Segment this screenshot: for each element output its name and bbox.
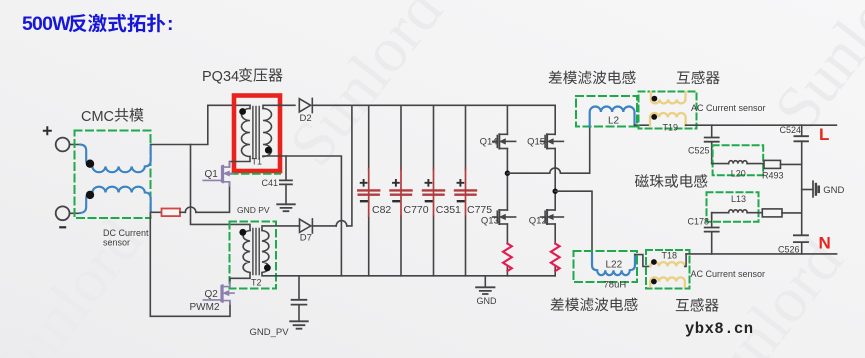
CMC common-mode choke dashed box	[75, 131, 151, 219]
resistor below Q13	[503, 244, 512, 272]
svg-text:Q15: Q15	[527, 137, 545, 148]
T19 primary winding dot	[651, 114, 657, 120]
wire upper output with hop	[507, 126, 589, 173]
svg-text:AC Current sensor: AC Current sensor	[691, 103, 766, 113]
svg-text:C82: C82	[372, 204, 391, 216]
svg-text:L2: L2	[608, 116, 620, 127]
L22 dashed box	[574, 251, 638, 282]
resistor current sense	[162, 209, 181, 217]
resistor R493	[764, 160, 781, 168]
wire N rail	[686, 253, 837, 255]
svg-text:C351: C351	[436, 204, 461, 216]
capacitor C526	[801, 235, 803, 254]
terminal + input	[56, 138, 70, 152]
svg-text:T19: T19	[663, 123, 679, 133]
resistor below Q12	[551, 244, 560, 272]
transformer T2 primary dot	[239, 229, 246, 236]
transistor Q14 (mosfet)	[493, 134, 516, 148]
L13 dashed box	[707, 192, 759, 222]
svg-text:C770: C770	[404, 204, 429, 216]
wire D7 cathode to hop	[312, 225, 336, 227]
svg-text:CMC: CMC	[81, 109, 114, 125]
transformer T1 dashed box bottom edge	[231, 173, 280, 175]
ground GND secondary	[484, 276, 486, 287]
wire bridge right leg	[554, 105, 556, 275]
wire T18 to N rail	[685, 254, 686, 267]
wire bridge left leg	[506, 105, 508, 275]
current transformer T18 primary winding	[650, 262, 685, 266]
current transformer T19 primary winding	[650, 113, 686, 125]
capacitor on secondary gnd rail	[298, 276, 300, 321]
CMC choke winding lower	[80, 187, 151, 213]
T19 sense winding dot	[652, 96, 658, 102]
T19 dashed box	[639, 92, 697, 129]
current transformer T19 sense winding	[651, 92, 686, 104]
wire T1 secondary bottom return	[263, 156, 341, 276]
svg-text::: :	[167, 13, 174, 35]
svg-text:T1: T1	[252, 157, 263, 167]
CMC lower winding polarity dot	[86, 191, 94, 199]
transistor Q15 (mosfet)	[541, 134, 564, 148]
node bridge left midpoint	[505, 171, 510, 176]
transformer T1 core	[253, 107, 259, 159]
diode D2	[299, 99, 310, 112]
svg-text:C525: C525	[688, 146, 710, 156]
transformer T2 dashed box	[230, 222, 277, 289]
wire T1 primary bottom to Q1 drain	[230, 157, 251, 168]
svg-text:Q12: Q12	[529, 216, 547, 227]
L2 dashed box	[576, 96, 637, 127]
svg-text:PQ34: PQ34	[202, 69, 239, 85]
wire T2 secondary bottom to gnd rail	[262, 273, 555, 276]
wire sense node to resistor	[151, 211, 162, 213]
ground GND chassis right	[802, 189, 813, 191]
wire T19 to L terminal	[686, 124, 837, 126]
svg-text:DC Current: DC Current	[103, 228, 149, 238]
diode D7	[300, 219, 311, 232]
svg-text:D2: D2	[300, 113, 312, 124]
transformer T1 red highlight box	[234, 96, 280, 172]
svg-text:C178: C178	[688, 217, 710, 227]
transformer T2 secondary winding	[262, 231, 269, 273]
capacitor C525	[711, 125, 713, 163]
svg-text:sensor: sensor	[103, 238, 130, 248]
svg-text:R493: R493	[762, 171, 784, 181]
transistor Q13 (mosfet)	[493, 210, 516, 224]
svg-text:N: N	[819, 234, 831, 253]
svg-text:T18: T18	[662, 251, 678, 261]
resistor after L13	[762, 209, 782, 217]
svg-text:ybx8.cn: ybx8.cn	[685, 320, 754, 338]
transistor Q2 (mosfet)	[203, 282, 234, 304]
CMC upper winding polarity dot	[86, 160, 94, 168]
svg-text:Q13: Q13	[481, 216, 499, 227]
svg-text:C41: C41	[262, 178, 279, 188]
wire hop to Q1 source	[196, 183, 230, 212]
label bead or inductor	[635, 174, 707, 188]
inductor L20	[729, 161, 748, 164]
label - input	[59, 226, 66, 228]
wire L2 to T19	[635, 124, 651, 126]
L20 dashed box	[713, 145, 764, 175]
wire + rail branch down to T2 primary	[191, 145, 251, 231]
svg-text:L20: L20	[731, 169, 746, 179]
wire T1 secondary top lead to D2	[263, 105, 295, 108]
wire T2 primary bottom to Q2 drain	[230, 273, 250, 283]
ground below C41	[277, 204, 295, 211]
svg-text:Q2: Q2	[205, 289, 219, 300]
wire hop over T1 secondary return	[336, 221, 347, 226]
node bridge right midpoint	[553, 189, 558, 194]
ground GND_PV	[290, 321, 308, 328]
capacitor C82 electrolytic	[368, 105, 370, 275]
wire R493 to main vertical	[781, 163, 802, 165]
svg-text:GND PV: GND PV	[237, 205, 270, 215]
svg-text:L: L	[819, 125, 829, 144]
label current transformer bottom	[676, 298, 719, 312]
capacitor C770 electrolytic	[400, 105, 402, 275]
svg-text:C775: C775	[467, 204, 492, 216]
svg-text:L13: L13	[731, 194, 746, 204]
svg-text:Q1: Q1	[205, 169, 219, 180]
wire D2 cathode to + bus	[312, 104, 555, 106]
capacitor C351 electrolytic	[433, 105, 435, 275]
wire - stub	[70, 212, 81, 214]
wire resistor to hop	[180, 211, 185, 213]
inductor L2	[590, 106, 635, 126]
label diff-mode filter inductor bottom	[551, 298, 638, 312]
wire L13 to resistor	[747, 212, 762, 214]
transformer T1 primary winding	[242, 109, 251, 157]
wire D7 riser to + bus	[347, 105, 352, 226]
transformer T2 secondary dot	[264, 264, 271, 271]
svg-text:D7: D7	[300, 233, 312, 244]
label diff-mode filter inductor top	[549, 71, 636, 85]
wire hop over T2 feed	[185, 207, 196, 212]
svg-text:T2: T2	[251, 278, 262, 288]
wire L22 to T18	[635, 255, 650, 267]
wire negative rail to Q2 source	[150, 213, 230, 316]
inductor L13	[729, 210, 748, 213]
svg-text:C526: C526	[778, 245, 800, 255]
capacitor C41	[285, 156, 287, 204]
svg-text:C524: C524	[780, 125, 802, 135]
svg-text:500W: 500W	[22, 13, 71, 35]
wire L20 to R493	[747, 163, 764, 165]
inductor L22	[592, 254, 635, 275]
transformer T1 secondary dot	[265, 147, 272, 154]
capacitor C178	[711, 213, 713, 254]
wire C178 junction to L13	[712, 213, 729, 218]
wire T1 primary top lead	[249, 105, 251, 108]
svg-text:PWM2: PWM2	[190, 302, 220, 313]
T18 dashed box	[646, 250, 690, 289]
wire C525 to L20	[712, 163, 729, 165]
terminal - input	[56, 206, 70, 220]
svg-text:GND: GND	[823, 185, 844, 196]
T18 primary winding dot	[651, 259, 657, 265]
svg-text:GND_PV: GND_PV	[250, 327, 290, 338]
svg-text:78uH: 78uH	[604, 280, 627, 291]
capacitor C524	[801, 125, 803, 235]
T18 sense winding dot	[651, 279, 657, 285]
svg-text:GND: GND	[477, 296, 498, 306]
transistor Q1 (mosfet)	[203, 162, 233, 186]
wire + rail to T1 primary	[151, 105, 250, 144]
svg-text:L22: L22	[606, 260, 623, 271]
wire T2 secondary top to D7	[262, 226, 300, 231]
label + input	[43, 126, 52, 135]
wire + stub	[70, 144, 81, 146]
capacitor C775 electrolytic	[465, 105, 467, 275]
CMC choke winding upper	[80, 145, 151, 173]
wire lower output	[555, 191, 592, 254]
transformer T1 secondary winding	[263, 109, 272, 157]
label current transformer top	[677, 71, 720, 85]
svg-text:Q14: Q14	[480, 137, 498, 148]
transformer T1 primary dot	[239, 108, 246, 115]
current transformer T18 sense winding	[650, 277, 685, 286]
transformer T2 primary winding	[243, 231, 250, 273]
wire resistor to main vertical	[782, 212, 802, 214]
transformer T2 core	[253, 229, 259, 275]
svg-text:AC Current sensor: AC Current sensor	[691, 269, 766, 279]
transistor Q12 (mosfet)	[541, 210, 564, 224]
